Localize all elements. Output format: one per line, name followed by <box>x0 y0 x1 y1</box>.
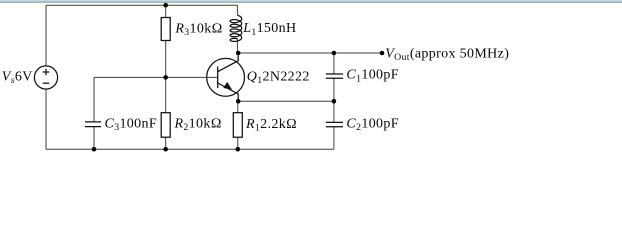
resistor R1 body <box>233 113 242 138</box>
junction dot collector/L1/output <box>236 51 241 56</box>
svg-text:C2100pF: C2100pF <box>346 116 399 133</box>
transistor Q1 emitter lead <box>218 83 239 101</box>
wire C2 upper <box>333 101 335 122</box>
resistor R3 body <box>161 18 170 41</box>
wire C3 lower <box>93 127 95 150</box>
svg-text:VOut(approx 50MHz): VOut(approx 50MHz) <box>385 46 509 63</box>
junction dot bottom R2 <box>163 147 168 152</box>
svg-text:C1100pF: C1100pF <box>346 68 399 85</box>
wire R3 top stub <box>165 5 167 17</box>
voltage source plus sign <box>43 69 50 76</box>
wire C1 upper <box>333 53 335 74</box>
wire bottom rail <box>46 148 334 150</box>
wire base horizontal <box>94 76 218 78</box>
junction dot emitter/R1 <box>236 99 241 104</box>
top browser edge grey line <box>0 2 622 3</box>
svg-text:C3100nF: C3100nF <box>105 117 158 134</box>
wire C1 lower <box>333 78 335 101</box>
wire output horizontal <box>238 52 382 54</box>
transistor Q1 collector lead <box>218 53 239 72</box>
svg-text:Vs6V: Vs6V <box>2 69 33 86</box>
junction dot bottom C3 <box>92 147 97 152</box>
capacitor C1 plates <box>326 74 343 78</box>
svg-text:L1150nH: L1150nH <box>242 21 296 38</box>
svg-text:R210kΩ: R210kΩ <box>174 117 222 134</box>
voltage source V_s circle <box>34 66 57 89</box>
terminal dot V_Out <box>380 51 385 56</box>
transistor Q1 emitter arrowhead <box>224 83 231 90</box>
wire top rail <box>46 4 237 6</box>
wire emitter horizontal <box>238 100 334 102</box>
wire R1 bottom stub <box>237 137 239 149</box>
wire inductor top stub <box>236 5 238 15</box>
wire R3 bottom stub <box>165 41 167 78</box>
junction dot top rail R3 <box>163 3 168 8</box>
wire R2 top stub <box>165 77 167 112</box>
wire R2 bottom stub <box>165 137 167 149</box>
top browser edge teal line <box>0 0 622 2</box>
voltage source minus sign <box>43 82 50 84</box>
wire C3 upper <box>93 77 95 122</box>
junction dot output wire C1 <box>332 51 337 56</box>
svg-text:R12.2kΩ: R12.2kΩ <box>245 117 297 134</box>
wire R1 top stub <box>237 101 239 112</box>
capacitor C3 plates <box>85 122 101 127</box>
resistor R2 body <box>161 113 170 138</box>
wire left rail upper <box>45 5 47 66</box>
inductor L1 coil <box>230 15 242 41</box>
junction dot base/R3/R2 <box>163 75 168 80</box>
transistor Q1 circle <box>207 58 245 96</box>
transistor Q1 base bar <box>217 67 219 88</box>
wire C2 lower <box>333 127 335 150</box>
wire inductor bottom stub <box>236 39 238 53</box>
junction dot bottom R1 <box>236 147 241 152</box>
svg-text:R310kΩ: R310kΩ <box>174 22 222 39</box>
junction dot C1-C2 <box>332 99 337 104</box>
capacitor C2 plates <box>326 122 343 126</box>
svg-text:Q12N2222: Q12N2222 <box>247 69 310 86</box>
wire left rail lower <box>45 89 47 149</box>
